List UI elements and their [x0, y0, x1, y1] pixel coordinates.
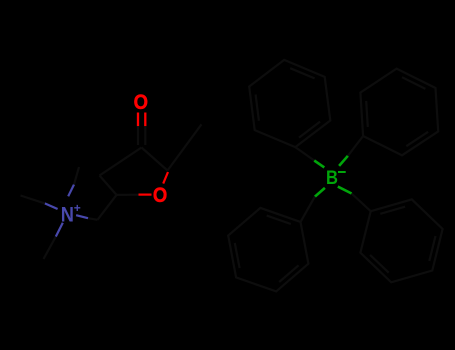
wire CH2 to N dark half: [88, 218, 98, 220]
bond CH2-N blue half: [76, 215, 88, 218]
wire C3-C4: [100, 148, 142, 176]
B bond down-left dark half: [301, 197, 315, 222]
N methyl down-left blue half: [56, 223, 63, 237]
B bond up-left green half: [314, 161, 324, 168]
ring O to C2 bond (red): [163, 172, 168, 184]
N methyl up dark half: [74, 167, 79, 185]
N methyl up blue half: [68, 185, 74, 197]
phenyl ring down-left: [228, 208, 308, 292]
svg-text:O: O: [134, 91, 148, 114]
ring O to C5 bond dark half: [117, 194, 139, 196]
phenyl ring up-right: [360, 69, 438, 156]
phenyl ring up-left: [249, 60, 330, 147]
wire C4-C5: [100, 176, 117, 195]
N methyl left dark half: [21, 196, 45, 204]
svg-text:B: B: [326, 167, 338, 189]
B bond up-left dark half: [295, 147, 314, 160]
N methyl down-left dark half: [44, 237, 56, 259]
B bond down-left green half: [315, 188, 325, 197]
C=O double bond dark halves: [138, 126, 145, 145]
B bond down-right dark half: [352, 194, 371, 212]
phenyl ring down-right: [360, 199, 442, 282]
wire C3-C2: [142, 148, 168, 171]
wire C2-CH3: [168, 124, 202, 170]
wire C5-CH2: [98, 195, 117, 220]
svg-text:+: +: [74, 201, 81, 215]
C=O double bond red halves: [138, 113, 145, 127]
B bond down-right green half: [338, 187, 352, 194]
B bond up-right green half: [339, 156, 348, 166]
B bond up-right dark half: [348, 136, 363, 156]
N methyl left blue half: [45, 203, 58, 209]
minus superscript: [338, 171, 346, 173]
ring O to C5 bond red half: [139, 194, 152, 196]
svg-text:O: O: [153, 184, 167, 207]
